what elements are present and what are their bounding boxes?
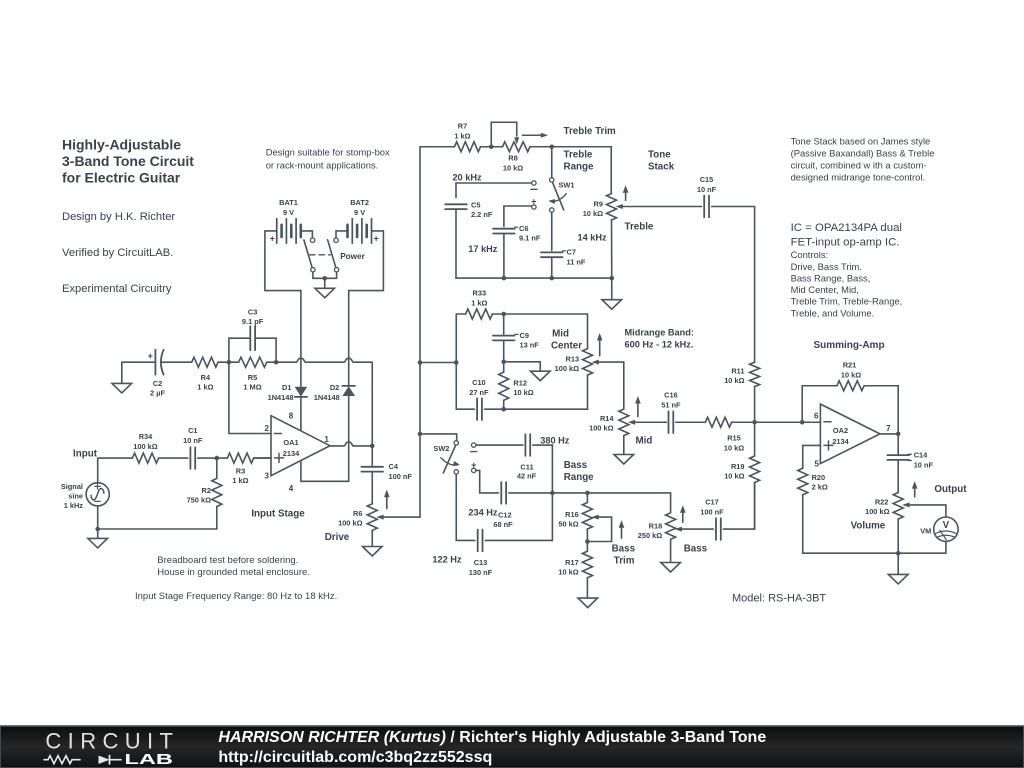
svg-text:11 nF: 11 nF bbox=[567, 258, 586, 267]
logo resistor squiggle bbox=[44, 756, 80, 764]
svg-text:1 kΩ: 1 kΩ bbox=[454, 132, 470, 141]
svg-text:2134: 2134 bbox=[283, 449, 300, 458]
svg-text:234 Hz: 234 Hz bbox=[468, 508, 498, 518]
svg-text:R7: R7 bbox=[458, 122, 467, 131]
wire VM bottom bbox=[803, 542, 946, 554]
node bus/SW2 tap bbox=[418, 432, 423, 437]
ground C2 bbox=[112, 383, 132, 393]
svg-text:for Electric Guitar: for Electric Guitar bbox=[62, 170, 181, 186]
svg-text:Mid: Mid bbox=[552, 329, 569, 340]
svg-text:Range: Range bbox=[564, 162, 594, 173]
svg-text:R11: R11 bbox=[731, 367, 744, 376]
wire R18 wiper to C17 bbox=[682, 528, 713, 530]
svg-text:R13: R13 bbox=[566, 355, 580, 364]
svg-text:100 kΩ: 100 kΩ bbox=[555, 364, 579, 373]
wire R9 top bbox=[610, 147, 612, 194]
svg-text:10 kΩ: 10 kΩ bbox=[724, 444, 744, 453]
svg-text:100 kΩ: 100 kΩ bbox=[338, 519, 362, 528]
wire R14 wiper to C16 bbox=[635, 421, 666, 423]
op-amp OA1 bbox=[271, 416, 330, 476]
svg-text:Tone: Tone bbox=[648, 150, 671, 161]
svg-text:1N4148: 1N4148 bbox=[268, 393, 294, 402]
svg-text:3: 3 bbox=[265, 472, 270, 481]
wire 17kHz branch bbox=[504, 205, 532, 207]
svg-text:Mid Center, Mid,: Mid Center, Mid, bbox=[791, 284, 859, 295]
svg-text:10 kΩ: 10 kΩ bbox=[841, 371, 861, 380]
svg-text:27 nF: 27 nF bbox=[469, 388, 489, 397]
svg-text:Bass: Bass bbox=[612, 544, 636, 555]
footer bar bbox=[0, 726, 1024, 768]
svg-text:51 nF: 51 nF bbox=[661, 401, 681, 410]
svg-text:Treble: Treble bbox=[564, 150, 593, 161]
svg-text:100 kΩ: 100 kΩ bbox=[589, 424, 613, 433]
svg-text:10 kΩ: 10 kΩ bbox=[558, 567, 578, 576]
svg-text:9 V: 9 V bbox=[354, 208, 365, 217]
switch SW2 bbox=[454, 441, 458, 445]
logo diode bbox=[99, 756, 110, 765]
svg-text:17 kHz: 17 kHz bbox=[468, 244, 498, 254]
svg-text:380 Hz: 380 Hz bbox=[540, 436, 570, 446]
node R21 tap bbox=[800, 420, 805, 425]
svg-text:Controls:: Controls: bbox=[791, 249, 829, 260]
svg-text:100 nF: 100 nF bbox=[389, 472, 413, 481]
svg-text:100 nF: 100 nF bbox=[700, 508, 724, 517]
svg-text:R34: R34 bbox=[139, 432, 153, 441]
svg-text:Bass Range, Bass,: Bass Range, Bass, bbox=[791, 273, 871, 284]
node output gnd bbox=[896, 551, 901, 556]
svg-text:HARRISON RICHTER (Kurtus) / Ri: HARRISON RICHTER (Kurtus) / Richter's Hi… bbox=[218, 729, 766, 746]
wire BAT2 to V- rail bbox=[349, 231, 384, 386]
node OA2 out bbox=[896, 432, 901, 437]
wire C11 branch bbox=[476, 444, 523, 446]
svg-text:130 nF: 130 nF bbox=[469, 568, 493, 577]
svg-text:9.1 nF: 9.1 nF bbox=[519, 233, 541, 242]
svg-text:Breadboard test before solderi: Breadboard test before soldering. bbox=[157, 555, 298, 566]
svg-text:2 kΩ: 2 kΩ bbox=[812, 483, 828, 492]
svg-text:3-Band Tone Circuit: 3-Band Tone Circuit bbox=[62, 153, 194, 169]
svg-text:Drive, Bass Trim.: Drive, Bass Trim. bbox=[791, 261, 862, 272]
svg-text:7: 7 bbox=[886, 424, 891, 433]
wire R13 wiper to R14 bbox=[599, 361, 624, 363]
svg-text:or rack-mount applications.: or rack-mount applications. bbox=[266, 160, 379, 171]
svg-text:C1: C1 bbox=[188, 426, 197, 435]
svg-text:+: + bbox=[531, 196, 536, 206]
svg-text:Tone Stack based on James styl: Tone Stack based on James style bbox=[791, 136, 931, 147]
svg-text:SW2: SW2 bbox=[433, 444, 449, 453]
svg-text:68 nF: 68 nF bbox=[493, 520, 513, 529]
svg-text:2: 2 bbox=[265, 424, 270, 433]
svg-text:C2: C2 bbox=[153, 379, 162, 388]
svg-text:Design suitable for stomp-box: Design suitable for stomp-box bbox=[266, 147, 390, 158]
svg-text:Power: Power bbox=[340, 252, 365, 261]
svg-text:Signal: Signal bbox=[61, 482, 83, 491]
svg-text:10 kΩ: 10 kΩ bbox=[503, 164, 523, 173]
wire power switch common bbox=[313, 272, 337, 278]
svg-text:C5: C5 bbox=[471, 201, 480, 210]
svg-text:Drive: Drive bbox=[325, 532, 350, 543]
svg-text:Treble, and Volume.: Treble, and Volume. bbox=[791, 308, 875, 319]
wire C12 branch bbox=[476, 470, 498, 493]
wire input top bbox=[97, 458, 99, 483]
svg-text:R17: R17 bbox=[565, 558, 579, 567]
svg-text:122 Hz: 122 Hz bbox=[432, 555, 462, 565]
svg-text:House in grounded metal enclos: House in grounded metal enclosure. bbox=[157, 567, 310, 578]
node R7/R8 bbox=[489, 144, 494, 149]
svg-text:D2: D2 bbox=[330, 383, 339, 392]
svg-text:10 kΩ: 10 kΩ bbox=[724, 472, 744, 481]
ground R18 bbox=[661, 563, 681, 573]
svg-text:10 kΩ: 10 kΩ bbox=[513, 388, 533, 397]
switch Power (ganged) bbox=[310, 238, 314, 242]
svg-text:Summing-Amp: Summing-Amp bbox=[813, 340, 884, 351]
svg-text:5: 5 bbox=[814, 460, 819, 469]
svg-text:Experimental Circuitry: Experimental Circuitry bbox=[62, 283, 172, 295]
svg-text:R18: R18 bbox=[649, 522, 663, 531]
svg-text:600 Hz - 12 kHz.: 600 Hz - 12 kHz. bbox=[625, 340, 694, 350]
svg-text:OA1: OA1 bbox=[283, 438, 298, 447]
ground output bbox=[888, 574, 908, 584]
wire R22 wiper to VM bbox=[909, 505, 946, 517]
svg-text:Input Stage: Input Stage bbox=[251, 509, 305, 520]
svg-text:Input Stage Frequency Range: 8: Input Stage Frequency Range: 80 Hz to 18… bbox=[135, 591, 337, 602]
svg-text:Verified by CircuitLAB.: Verified by CircuitLAB. bbox=[62, 247, 173, 259]
svg-text:Center: Center bbox=[551, 341, 582, 352]
svg-text:Stack: Stack bbox=[648, 162, 675, 173]
wire plus input bbox=[254, 457, 271, 459]
svg-text:4: 4 bbox=[289, 484, 294, 493]
svg-text:2.2 nF: 2.2 nF bbox=[471, 210, 493, 219]
wire C15 down to R11 bbox=[754, 207, 756, 363]
wire D2 to pin4 bracket bbox=[348, 396, 350, 481]
feedback rail to output bbox=[276, 361, 296, 363]
svg-text:R8: R8 bbox=[508, 154, 517, 163]
wire SW1 bottom to C7 bbox=[551, 212, 553, 250]
svg-text:Treble: Treble bbox=[625, 222, 654, 233]
ground source bbox=[88, 538, 108, 548]
node bus/mid tap bbox=[418, 360, 423, 365]
svg-text:Mid: Mid bbox=[636, 436, 653, 447]
svg-text:2 µF: 2 µF bbox=[150, 389, 165, 398]
ground power bbox=[315, 288, 335, 298]
svg-text:Volume: Volume bbox=[851, 521, 886, 532]
svg-text:C7: C7 bbox=[567, 248, 576, 257]
svg-text:R12: R12 bbox=[513, 379, 527, 388]
wire mid box left bbox=[455, 314, 457, 409]
wire summing minus bbox=[755, 421, 821, 423]
svg-text:R33: R33 bbox=[473, 289, 487, 298]
svg-text:R2: R2 bbox=[202, 486, 211, 495]
wire BAT1 to V+ rail bbox=[265, 231, 301, 386]
svg-text:FET-input op-amp IC.: FET-input op-amp IC. bbox=[791, 237, 900, 249]
node C9/R12/gnd bbox=[501, 360, 506, 365]
wire mid tap to box bbox=[420, 362, 456, 364]
svg-text:14 kHz: 14 kHz bbox=[578, 233, 608, 243]
svg-text:BAT2: BAT2 bbox=[350, 198, 369, 207]
svg-text:+: + bbox=[471, 460, 476, 470]
svg-text:BAT1: BAT1 bbox=[279, 198, 298, 207]
svg-text:1 kΩ: 1 kΩ bbox=[471, 299, 487, 308]
svg-text:R20: R20 bbox=[812, 473, 826, 482]
svg-text:2134: 2134 bbox=[832, 437, 849, 446]
svg-text:C3: C3 bbox=[248, 308, 257, 317]
arrow treble trim bbox=[523, 134, 542, 136]
svg-text:R15: R15 bbox=[727, 434, 741, 443]
ground treble bbox=[602, 300, 622, 310]
wire plus to R20 bbox=[803, 445, 821, 468]
svg-text:10 nF: 10 nF bbox=[914, 461, 934, 470]
svg-text:Trim: Trim bbox=[614, 556, 635, 567]
svg-text:100 kΩ: 100 kΩ bbox=[133, 442, 157, 451]
wire mid gnd branch bbox=[504, 361, 541, 363]
svg-text:Bass: Bass bbox=[684, 544, 708, 555]
svg-text:R4: R4 bbox=[201, 373, 211, 382]
wire D1 to pin8 bbox=[300, 397, 302, 430]
svg-text:1 kΩ: 1 kΩ bbox=[232, 476, 248, 485]
svg-text:Design by H.K. Richter: Design by H.K. Richter bbox=[62, 211, 175, 223]
svg-text:R19: R19 bbox=[731, 462, 745, 471]
svg-text:LAB: LAB bbox=[125, 752, 173, 768]
svg-text:circuit, combined w ith a cust: circuit, combined w ith a custom- bbox=[791, 160, 927, 171]
wire source bottom bbox=[97, 506, 99, 529]
node bass join bbox=[550, 491, 555, 496]
svg-text:9 V: 9 V bbox=[283, 208, 294, 217]
svg-text:13 nF: 13 nF bbox=[520, 341, 540, 350]
svg-text:http://circuitlab.com/c3bq2zz5: http://circuitlab.com/c3bq2zz552ssq bbox=[218, 749, 492, 766]
svg-text:+: + bbox=[270, 234, 275, 244]
wire OA1 output bbox=[330, 445, 344, 447]
svg-text:50 kΩ: 50 kΩ bbox=[558, 520, 578, 529]
svg-text:R3: R3 bbox=[236, 467, 245, 476]
svg-text:1 kΩ: 1 kΩ bbox=[197, 383, 213, 392]
node summing bbox=[752, 420, 757, 425]
node output/C4 bbox=[370, 444, 375, 449]
svg-text:sine: sine bbox=[68, 492, 83, 501]
svg-text:C16: C16 bbox=[664, 391, 678, 400]
svg-text:R6: R6 bbox=[353, 509, 362, 518]
svg-text:10 nF: 10 nF bbox=[697, 185, 717, 194]
wire C2 to R4 bbox=[162, 361, 192, 363]
svg-text:C12: C12 bbox=[498, 511, 512, 520]
svg-text:10 nF: 10 nF bbox=[183, 436, 203, 445]
svg-text:R21: R21 bbox=[843, 361, 857, 370]
svg-text:designed midrange tone-control: designed midrange tone-control. bbox=[791, 172, 925, 183]
ground mid bbox=[530, 371, 550, 381]
node C1/R3/R2 bbox=[215, 456, 220, 461]
svg-text:C14: C14 bbox=[914, 451, 928, 460]
wire mid box right / R13 bbox=[587, 314, 589, 349]
svg-text:10 kΩ: 10 kΩ bbox=[724, 376, 744, 385]
wire R18 top bbox=[670, 493, 672, 513]
svg-text:Output: Output bbox=[934, 484, 967, 495]
ground R6 bbox=[362, 547, 382, 557]
svg-text:C15: C15 bbox=[700, 175, 714, 184]
svg-text:Bass: Bass bbox=[564, 460, 588, 471]
node SW1 top bbox=[549, 144, 554, 149]
svg-text:9.1 pF: 9.1 pF bbox=[242, 317, 264, 326]
node R33/C9 bbox=[501, 312, 506, 317]
svg-text:C13: C13 bbox=[474, 558, 488, 567]
wire wiper bus bbox=[419, 147, 421, 517]
svg-text:R5: R5 bbox=[248, 373, 257, 382]
svg-text:VM: VM bbox=[920, 526, 931, 535]
svg-text:C10: C10 bbox=[472, 378, 486, 387]
svg-text:OA2: OA2 bbox=[833, 426, 848, 435]
switch SW1 bbox=[551, 147, 553, 178]
svg-text:C6: C6 bbox=[519, 224, 528, 233]
svg-text:D1: D1 bbox=[282, 383, 291, 392]
svg-text:8: 8 bbox=[289, 412, 294, 421]
svg-text:C9: C9 bbox=[520, 331, 529, 340]
svg-text:+: + bbox=[373, 234, 378, 244]
feedback R21 loop bbox=[802, 386, 837, 423]
svg-text:42 nF: 42 nF bbox=[517, 472, 537, 481]
ground R14 bbox=[614, 455, 634, 465]
svg-text:20 kHz: 20 kHz bbox=[452, 173, 482, 183]
svg-text:R16: R16 bbox=[565, 510, 579, 519]
svg-text:10 kΩ: 10 kΩ bbox=[583, 209, 603, 218]
wire R9 wiper to C15 bbox=[623, 206, 702, 208]
svg-text:+: + bbox=[148, 351, 153, 361]
wire treble top rail bbox=[420, 146, 455, 148]
svg-text:1: 1 bbox=[324, 435, 329, 444]
svg-text:Treble Trim, Treble-Range,: Treble Trim, Treble-Range, bbox=[791, 296, 903, 307]
svg-text:Input: Input bbox=[73, 449, 98, 460]
wire SW2 branch bbox=[420, 433, 457, 435]
wire treble bottom rail bbox=[456, 277, 612, 279]
svg-text:250 kΩ: 250 kΩ bbox=[638, 531, 662, 540]
op-amp OA2 bbox=[820, 404, 880, 464]
svg-text:6: 6 bbox=[814, 412, 819, 421]
svg-text:Model: RS-HA-3BT: Model: RS-HA-3BT bbox=[732, 593, 826, 605]
wire mid box bottom rail bbox=[456, 408, 474, 410]
wire 20kHz branch bbox=[456, 182, 532, 184]
node R16/R17 bbox=[585, 539, 590, 544]
svg-text:1 kHz: 1 kHz bbox=[64, 501, 84, 510]
svg-text:C11: C11 bbox=[520, 463, 533, 472]
svg-text:C4: C4 bbox=[389, 462, 399, 471]
wire minus input branch bbox=[229, 362, 271, 433]
svg-text:R14: R14 bbox=[600, 414, 614, 423]
wire mid box top rail bbox=[456, 313, 465, 315]
wire OA2 output bbox=[880, 433, 898, 435]
wire C2 left + ground bbox=[122, 361, 156, 363]
svg-text:750 kΩ: 750 kΩ bbox=[187, 496, 211, 505]
svg-text:R9: R9 bbox=[594, 200, 603, 209]
svg-text:Midrange Band:: Midrange Band: bbox=[625, 328, 694, 338]
svg-text:IC = OPA2134PA dual: IC = OPA2134PA dual bbox=[791, 222, 902, 234]
svg-text:1 MΩ: 1 MΩ bbox=[243, 383, 261, 392]
svg-text:C17: C17 bbox=[705, 498, 719, 507]
wire bass rail bbox=[552, 492, 670, 494]
svg-text:(Passive Baxandall) Bass & Tre: (Passive Baxandall) Bass & Treble bbox=[791, 148, 935, 159]
ground R17 bbox=[578, 598, 598, 608]
svg-text:R22: R22 bbox=[875, 498, 889, 507]
wire C13 branch bbox=[456, 474, 475, 540]
node R4/R5 bbox=[227, 360, 232, 365]
svg-text:SW1: SW1 bbox=[559, 181, 575, 190]
svg-text:V: V bbox=[943, 520, 950, 531]
node R5 right bbox=[274, 360, 279, 365]
svg-text:Highly-Adjustable: Highly-Adjustable bbox=[62, 137, 181, 153]
svg-text:Range: Range bbox=[564, 472, 594, 483]
svg-text:100 kΩ: 100 kΩ bbox=[865, 507, 889, 516]
svg-text:1N4148: 1N4148 bbox=[314, 393, 340, 402]
svg-text:Treble Trim: Treble Trim bbox=[564, 126, 617, 137]
